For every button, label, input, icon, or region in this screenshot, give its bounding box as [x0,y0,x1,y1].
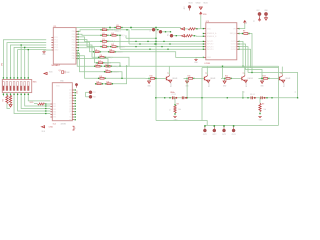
wire loop right vertical [278,66,280,125]
svg-text:TX: TX [93,92,96,94]
wire switch to IC2 pin6 [14,96,50,113]
switch element [3,82,5,91]
resistor row7a [94,66,95,67]
svg-text:Q6: Q6 [69,106,71,108]
svg-text:RX: RX [168,33,170,36]
wire cell3 feed [222,66,224,78]
pad TP0 row [131,29,152,31]
svg-text:GND: GND [260,86,264,88]
pad TP0 [152,28,155,31]
wire tap col8 [27,50,29,80]
svg-text:T3: T3 [243,73,245,75]
resistor R3 pull-down [9,95,11,103]
wire p3 elbow [78,37,101,42]
svg-text:1N4148: 1N4148 [210,78,215,80]
svg-text:OUT2: OUT2 [231,44,236,46]
junction switch top pad [17,77,18,78]
IC2 left pin stub [50,113,52,115]
wire switch bottom stub [2,93,4,97]
svg-text:GND: GND [54,50,59,52]
ground below R20 [173,115,176,117]
pad TP1 [159,30,162,33]
wire to IC3 VDD [195,28,203,30]
svg-text:OUT1: OUT1 [203,134,207,136]
wire p2 elbow [78,34,101,35]
wire VS [239,23,245,28]
IC3 pin ENABLE_B [204,35,206,37]
svg-text:B: B [295,91,297,92]
IC2 right pin stub [72,92,74,94]
wire rail B to pair row [248,73,298,98]
LED L2 [214,125,216,127]
wire rail A [111,65,278,67]
wire p6 elbow [78,45,98,57]
wire row 38.3 [126,37,156,39]
wire stub [125,35,127,38]
wire LED rail 1 [156,121,207,126]
svg-text:C3 C4: C3 C4 [250,94,255,96]
svg-text:JP1: JP1 [1,63,3,66]
junction IC2 row [45,110,46,111]
wire U-turn [112,66,126,84]
wire vdd drop [200,15,202,28]
junction switch top pad [6,77,7,78]
svg-text:R8: R8 [177,103,179,105]
resistor R19 [242,33,243,34]
wire collector up [281,67,283,75]
wire switch bottom stub [13,93,15,97]
IC3 pin VDD [204,28,206,30]
wire p4 elbow [78,40,101,47]
svg-text:1N4148: 1N4148 [172,78,177,80]
svg-text:R9: R9 [243,30,245,32]
svg-text:VDD: VDD [188,2,193,4]
switch SW1 body [2,80,31,93]
resistor row1 [100,29,101,30]
resistor R4 horizontal zigzag [38,103,45,105]
wire row 41.4 to IC3 [108,40,204,42]
junction IC2 row [45,108,46,109]
svg-text:R13: R13 [263,75,266,77]
diode arrow on TP2 row [181,35,184,37]
wire row71 down [111,72,122,79]
wire loop left vertical [201,68,203,121]
wire top bus left drop [75,28,77,61]
svg-text:LED: LED [76,90,78,94]
junction IC2 row [45,105,46,106]
svg-text:Q5: Q5 [69,103,71,105]
bracket symbol [73,126,75,130]
junction pair row [155,97,156,98]
wire IC1 to switch nest [3,40,46,80]
svg-text:10k: 10k [178,109,181,111]
svg-text:GND: GND [259,120,263,122]
transistor cell 10 [146,77,150,79]
wire row62 join rail [104,63,120,66]
wire IC1 to switch nest [14,47,46,79]
wire row57 to rail [105,57,129,66]
wire pad stub [86,91,89,93]
junction row41 [135,41,136,42]
wire OUT2 to cell4 [239,44,262,78]
svg-text:PB1: PB1 [72,56,75,58]
LED L4 [233,125,235,127]
junction switch top pad [21,77,22,78]
switch element [20,82,22,91]
junction U-turn [126,66,127,67]
svg-text:GND: GND [223,86,227,88]
resistor row62 [96,62,97,63]
junction row44 [154,43,155,44]
LED L1 [204,125,206,127]
svg-text:BC547: BC547 [246,82,248,87]
ground IC1 [42,51,45,53]
IC3 pin OUT4 [237,48,239,50]
switch element [17,82,19,91]
svg-text:Q3: Q3 [69,98,71,100]
svg-text:BC547: BC547 [170,82,172,87]
svg-text:VDD: VDD [203,14,207,16]
IC3 pin SEN_A [237,33,239,35]
wire sen down [249,34,252,73]
svg-text:Q1: Q1 [59,70,61,72]
wire p5 elbow [78,42,93,52]
transistor Q4 [278,77,280,81]
svg-text:PD1: PD1 [72,34,76,36]
junction row49 [149,49,150,50]
IC2 right pin stub [72,119,74,121]
svg-text:IN2: IN2 [53,106,56,108]
svg-text:GND: GND [264,10,268,12]
junction pair row [186,97,187,98]
svg-text:GND: GND [42,54,47,56]
wire collector up [206,67,208,75]
junction row41 [163,41,164,42]
svg-text:R2: R2 [2,99,4,101]
transistor cell 13 [259,77,263,79]
svg-text:OUT2: OUT2 [212,134,216,136]
svg-text:16MHz: 16MHz [170,92,175,94]
transistor Q2 [203,77,205,81]
junction vertical crossing [155,78,156,79]
supply arrow cell right [169,80,172,82]
wire to R20 vert [174,98,176,105]
wire p1 elbow [108,30,129,44]
wire gnd row to IC3 [115,52,203,58]
wire IC1 to switch nest [7,43,46,80]
wire stub A [242,91,244,98]
svg-text:VCC: VCC [256,10,260,12]
resistor C8 on top bus [114,27,115,28]
wire switch bottom stub [24,93,26,97]
transistor Q3 [241,77,243,81]
junction pair row [271,97,272,98]
IC3 pin INPUT4 [204,48,206,50]
svg-text:GND: GND [207,57,212,59]
svg-text:IC3: IC3 [206,21,209,23]
svg-text:Q1: Q1 [69,92,71,94]
junction top bus b [130,27,132,29]
wire crystal row [156,97,298,99]
resistor zigzag TP2 row [185,35,192,37]
wire OUT3 down [239,47,248,73]
diode D6 with arrow [180,28,182,29]
resistor row4b [110,46,111,47]
ground below R21 [258,116,261,118]
IC1 right pin stubs [76,31,78,33]
resistor row11a [105,83,106,84]
junction row44 [139,43,140,44]
junction pair row [164,97,165,98]
wire switch to IC2 pin3 [25,96,51,106]
svg-text:T2: T2 [205,73,207,75]
switch element [27,82,29,91]
wire switch to IC2 pin4 [21,96,50,108]
svg-text:OUT4: OUT4 [232,134,236,136]
resistor row2a [100,35,101,36]
svg-text:L293D: L293D [205,63,211,65]
svg-text:TX: TX [156,31,158,34]
wire pad stub [86,96,89,98]
switch element [24,82,26,91]
svg-text:SW1: SW1 [33,82,37,84]
wire tap col6 [20,45,22,80]
pad TX [89,91,92,94]
op IC3 body [206,23,237,60]
svg-text:GND: GND [185,86,189,88]
supply arrow cell right [282,80,285,82]
wire p11 to rail [78,59,108,67]
IC2 left pin stub [50,106,52,108]
wire switch bottom stub [20,93,22,97]
junction IC2 row [45,113,46,114]
wire switch bottom stub [17,93,19,97]
svg-text:OUT3: OUT3 [231,46,236,48]
resistor row7b [104,66,105,67]
svg-text:IC2: IC2 [53,124,56,126]
svg-text:PC1: PC1 [54,40,58,42]
wire to ENABLE_B [192,35,203,37]
svg-text:VDD: VDD [49,72,53,74]
svg-text:1N4148: 1N4148 [285,78,290,80]
junction switch top pad [24,77,25,78]
svg-text:1: 1 [75,128,76,130]
svg-text:X1: X1 [254,20,256,22]
ground arrow cell left [186,81,189,83]
svg-text:IN1: IN1 [53,104,56,106]
svg-text:JP2: JP2 [184,7,186,10]
svg-text:INPUT4: INPUT4 [207,49,213,51]
svg-text:Q0: Q0 [69,90,71,92]
resistor R18 zigzag [188,28,195,30]
svg-text:INPUT1: INPUT1 [207,41,213,43]
pad TP2 [170,34,173,37]
wire row 49.2 to IC3 [120,48,204,50]
junction row46 [161,46,162,47]
junction pair row [266,97,267,98]
IC2 right pin stub [72,111,74,113]
pad GND [264,12,267,15]
svg-text:VDD: VDD [30,102,34,104]
transistor Q1 [165,77,167,81]
svg-text:PD6: PD6 [72,47,76,49]
wire row 46.6 to IC3 [117,46,203,48]
capacitor pair C3 C4 [250,96,252,99]
wire p1 [78,30,101,32]
svg-text:OUT3: OUT3 [222,134,226,136]
wire vdd to R4 [34,103,38,105]
IC2 right pin stub [72,97,74,99]
IC3 pin OUT2 [237,43,239,45]
svg-text:Q4: Q4 [69,100,71,102]
ground arrow right [265,18,268,20]
svg-text:BC547: BC547 [208,82,210,87]
svg-text:PB2: PB2 [72,58,75,60]
svg-text:PD7: PD7 [72,50,76,52]
ground arrow below switch [9,105,12,107]
wire sen [239,33,242,35]
switch element [13,82,15,91]
IC2 right pin stub [72,116,74,118]
svg-text:VS: VS [246,21,248,24]
svg-text:PB0: PB0 [72,53,75,55]
resistor R20 vertical [174,105,176,113]
resistor row6 [98,57,99,58]
wire switch bottom stub [27,93,29,97]
ground IC3 [194,58,197,60]
supply arrow cell right [207,80,210,82]
svg-text:GND: GND [147,86,151,88]
wire collector up [244,67,246,75]
svg-text:10k: 10k [264,109,267,111]
IC3 pin VS [237,28,239,30]
IC2 left pin stub [50,103,52,105]
supply VDD arrow [200,12,203,14]
IC3 pin INPUT2 [204,43,206,45]
junction row44 [169,43,170,44]
junction pair row [227,97,228,98]
wire OUT4 down [239,49,251,67]
wire switch bottom stub [10,93,12,97]
svg-text:1k: 1k [170,109,172,111]
junction row49 [167,49,168,50]
IC1 left pin stubs [51,37,53,39]
junction bus tap [155,27,156,28]
svg-text:BC547: BC547 [283,82,285,87]
svg-text:PD0: PD0 [72,31,76,33]
supply arrow VDD mid [44,72,47,74]
svg-text:PC4: PC4 [54,47,58,49]
IC2 left pin stub [50,108,52,110]
svg-text:VDD: VDD [42,131,46,133]
junction switch top pad [3,77,4,78]
wire p2 to row 49.2 [117,35,120,49]
svg-text:LED1: LED1 [49,127,53,129]
svg-text:PD5: PD5 [72,45,76,47]
resistor row2b [110,35,111,36]
pad GND IC2 [75,83,77,85]
ground arrow top [199,7,202,9]
wire cell2 drop [186,78,188,97]
IC2 right pin stub [72,103,74,105]
svg-text:R11: R11 [188,75,191,77]
IC2 left pin stub [50,111,52,113]
svg-text:Q7: Q7 [69,109,71,111]
junction pair row [169,97,170,98]
supply arrow VCC [258,18,261,20]
IC2 right pin stub [72,89,74,91]
svg-text:IC1: IC1 [53,26,56,28]
svg-text:16M: 16M [66,72,70,74]
ground arrow cell left [261,81,264,83]
svg-text:T1: T1 [167,73,169,75]
wire row 44 to IC3 [129,43,204,45]
wire p7 elbow [78,48,97,63]
svg-text:R10: R10 [150,75,153,77]
wire switch bottom stub [6,93,8,97]
junction switch top pad [13,77,14,78]
svg-text:T4: T4 [280,73,282,75]
svg-text:R12: R12 [225,75,228,77]
svg-text:1N4148: 1N4148 [248,78,253,80]
svg-text:PC2: PC2 [54,42,58,44]
svg-text:PC3: PC3 [54,45,58,47]
junction row46 [135,46,136,47]
svg-text:VDD: VDD [203,2,208,4]
wire p8 elbow [77,50,94,66]
svg-text:OUT4: OUT4 [231,49,236,51]
wire IC1 gnd stub [44,50,51,51]
wire p10 elbow [78,56,98,79]
resistor row11b [95,83,96,84]
junction top bus a [109,27,111,29]
resistor row10 [98,78,99,79]
capacitor pair C1 C2 [172,96,174,99]
supply arrow cell right [244,80,247,82]
wire IC1 to switch nest [18,50,47,80]
wire to R21 vert [259,98,261,104]
wire OUT1 down [239,41,243,66]
transistor cell 12 [221,77,225,79]
wire join R2 [7,107,10,109]
svg-text:IN6: IN6 [53,117,56,119]
resistor row8 [104,71,105,72]
junction pair row [201,97,202,98]
IC3 pin INPUT1 [204,40,206,42]
wire long vertical net [155,28,157,121]
svg-text:IN3: IN3 [53,109,56,111]
IC2 right pin stub [72,113,74,115]
svg-text:10kΩ_5: 10kΩ_5 [115,31,121,33]
IC2 right pin stub [72,100,74,102]
svg-text:4094N: 4094N [61,124,67,126]
wire collector up [168,67,170,75]
transistor cell 11 [184,77,188,79]
IC2 left pin stub [50,116,52,118]
resistor R2 pull-down [6,95,8,103]
wire p9 elbow [78,53,104,72]
svg-text:RX: RX [93,97,96,99]
switch element [6,82,8,91]
junction row41 [147,41,148,42]
wire top bus horizontal [76,27,181,29]
IC3 pin INPUT3 [204,46,206,48]
op IC1 body [53,28,76,65]
pad RX [89,95,92,98]
wire loop top [202,67,279,69]
junction switch top pad [10,77,11,78]
resistor row5b [108,51,109,52]
